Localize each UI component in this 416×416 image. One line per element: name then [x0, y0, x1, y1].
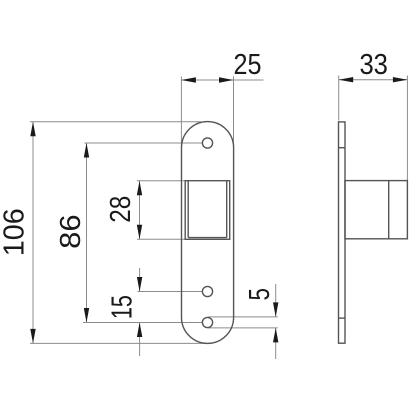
dim 5 lower leader — [275, 328, 277, 359]
dim 33 line — [339, 79, 408, 81]
arrow 5 top (outside, pointing down) — [273, 302, 278, 317]
arrow 28 top — [137, 181, 142, 196]
svg-text:5: 5 — [244, 288, 276, 301]
svg-text:86: 86 — [55, 214, 87, 249]
svg-text:33: 33 — [359, 49, 388, 81]
latch window outer rect — [185, 181, 230, 240]
svg-text:106: 106 — [0, 208, 31, 256]
dim 28 bottom extension — [137, 238, 185, 240]
dim 86 top extension (through top hole) — [84, 142, 202, 144]
dim 28 line — [139, 181, 141, 240]
arrow 5 bottom (outside, pointing up) — [273, 328, 278, 343]
latch window inner right edge — [226, 181, 228, 238]
dim 25 left extension — [180, 76, 182, 148]
dim 5 top tangent line — [208, 316, 278, 318]
arrow 86 top — [84, 143, 89, 158]
top screw hole — [202, 138, 212, 148]
dim 86 line — [86, 143, 88, 323]
arrow 28 bottom — [137, 225, 142, 240]
dim 15 extension (through middle hole) — [138, 291, 203, 293]
dim 33 right extension — [406, 76, 408, 239]
dim 5 bottom tangent line — [208, 327, 278, 329]
arrow 15 top (outside, pointing down) — [137, 277, 142, 292]
middle screw hole — [202, 286, 212, 296]
svg-text:15: 15 — [107, 295, 139, 319]
svg-text:28: 28 — [105, 196, 137, 223]
arrow 25 right — [219, 77, 234, 82]
dim 15 lower leader — [139, 323, 141, 357]
dim 25 line — [181, 79, 263, 81]
bottom screw hole — [202, 317, 212, 327]
side view bottom hole mark — [339, 317, 346, 319]
dim 28 top extension — [137, 180, 185, 182]
dim 106 top extension — [30, 121, 201, 123]
dim 106 bottom extension — [30, 342, 209, 344]
dim 33 left extension — [338, 76, 340, 121]
arrow 33 left — [339, 77, 354, 82]
dim 86 bottom extension (through bottom hole) — [83, 322, 202, 324]
arrow 106 top — [30, 122, 35, 137]
dim 106 line — [32, 122, 34, 344]
arrow 25 left — [181, 77, 196, 82]
side view plate — [339, 122, 346, 343]
dim 15 upper leader — [139, 268, 141, 292]
arrow 106 bottom — [30, 329, 35, 344]
svg-text:25: 25 — [234, 49, 262, 81]
side view top hole mark — [339, 147, 346, 149]
dim 5 upper leader — [275, 284, 277, 317]
arrow 15 bottom (outside, pointing up) — [137, 323, 142, 338]
side view lock case inner edge — [388, 181, 390, 239]
latch window inner bottom edge — [188, 237, 227, 239]
latch window inner left edge — [187, 181, 189, 238]
faceplate outline (front view stadium) — [182, 122, 234, 344]
arrow 86 bottom — [84, 308, 89, 323]
dim 25 right extension — [233, 76, 235, 148]
arrow 33 right — [393, 77, 408, 82]
side view lock case box — [345, 181, 407, 239]
